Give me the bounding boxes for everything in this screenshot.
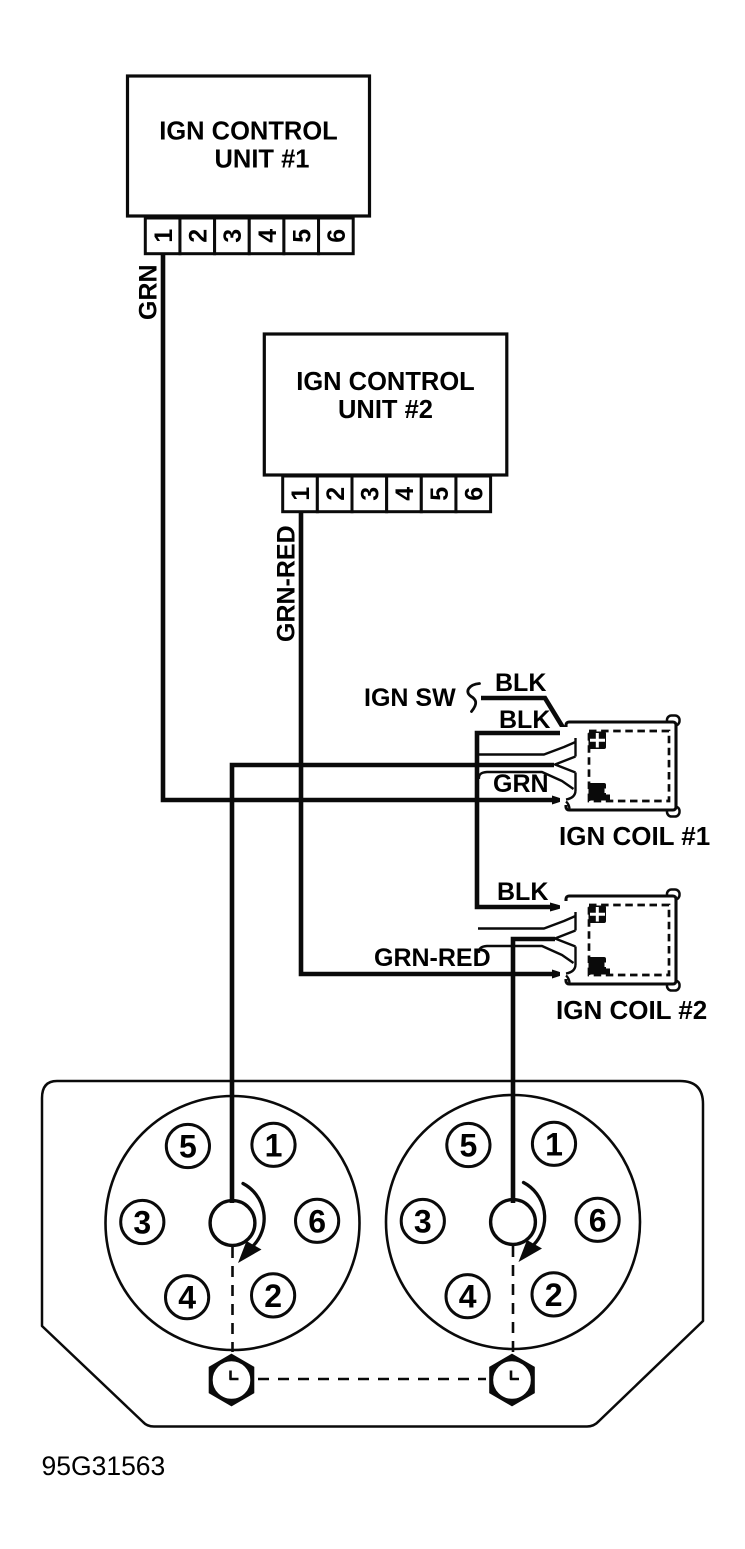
svg-text:6: 6 bbox=[308, 1203, 326, 1239]
right distributor plug tower 5 bbox=[447, 1123, 490, 1166]
IGN COIL #1 terminal cavity outlines bbox=[478, 742, 576, 755]
wire BLK junction branch to coil 2 positive bbox=[477, 733, 563, 907]
svg-text:GRN-RED: GRN-RED bbox=[374, 944, 491, 972]
IGN COIL #2 terminal cavity outlines bbox=[478, 916, 576, 929]
high-tension wire coil 2 to right distributor bbox=[513, 939, 555, 1203]
IGN COIL #1 coil body (dashed) bbox=[589, 731, 669, 801]
U2 connector pin row (pins 1-6) bbox=[283, 476, 318, 512]
svg-text:3: 3 bbox=[357, 487, 385, 501]
right distributor rotor centre bbox=[491, 1200, 536, 1245]
svg-text:BLK: BLK bbox=[495, 669, 546, 697]
svg-text:UNIT #2: UNIT #2 bbox=[338, 396, 433, 424]
dashed line between bolts bbox=[258, 1378, 486, 1381]
svg-text:2: 2 bbox=[322, 487, 350, 501]
svg-text:6: 6 bbox=[589, 1202, 607, 1238]
svg-text:IGN COIL #2: IGN COIL #2 bbox=[556, 995, 707, 1025]
svg-text:IGN CONTROL: IGN CONTROL bbox=[296, 368, 475, 396]
ignition coil connector IGN COIL #1 bbox=[667, 716, 680, 726]
ignition coil connector IGN COIL #2 bbox=[667, 890, 680, 900]
svg-text:3: 3 bbox=[133, 1205, 151, 1241]
svg-text:1: 1 bbox=[265, 1127, 283, 1163]
IGN COIL #2 negative terminal mark bbox=[589, 957, 607, 975]
wire GRN-RED from U2 pin 1 down then right to coil 2 negative bbox=[301, 512, 554, 974]
svg-text:4: 4 bbox=[459, 1279, 477, 1315]
IGN COIL #2 coil body (dashed) bbox=[589, 905, 669, 975]
svg-text:2: 2 bbox=[264, 1278, 282, 1314]
engine block outline bbox=[42, 1081, 703, 1427]
svg-text:2: 2 bbox=[184, 229, 212, 243]
svg-text:BLK: BLK bbox=[499, 706, 550, 734]
IGN control unit U1 box bbox=[128, 76, 370, 216]
svg-text:4: 4 bbox=[178, 1280, 196, 1316]
svg-text:5: 5 bbox=[179, 1129, 197, 1165]
IGN COIL #1 positive terminal mark bbox=[589, 732, 607, 750]
svg-text:1: 1 bbox=[545, 1126, 563, 1162]
right timing mark bolt bbox=[490, 1355, 534, 1405]
svg-text:GRN: GRN bbox=[135, 264, 163, 320]
right distributor cap circle bbox=[386, 1095, 640, 1349]
svg-text:IGN SW: IGN SW bbox=[364, 684, 456, 712]
svg-text:3: 3 bbox=[414, 1204, 432, 1240]
right timing dashed line down bbox=[512, 1246, 515, 1352]
left distributor plug tower 1 bbox=[252, 1123, 295, 1166]
svg-text:95G31563: 95G31563 bbox=[42, 1451, 166, 1481]
left distributor plug tower 3 bbox=[121, 1200, 164, 1243]
svg-text:IGN CONTROL: IGN CONTROL bbox=[159, 118, 338, 146]
right distributor plug tower 4 bbox=[446, 1275, 489, 1318]
svg-text:UNIT #1: UNIT #1 bbox=[215, 146, 310, 174]
svg-text:5: 5 bbox=[426, 487, 454, 501]
BLK wire tip at coil 2 positive bbox=[550, 903, 566, 912]
left distributor plug tower 6 bbox=[296, 1199, 339, 1242]
left distributor plug tower 4 bbox=[166, 1276, 209, 1319]
left timing mark bolt bbox=[210, 1355, 254, 1405]
left distributor cap circle bbox=[106, 1096, 360, 1350]
svg-text:1: 1 bbox=[150, 229, 178, 243]
IGN COIL #1 negative terminal mark bbox=[589, 783, 607, 801]
svg-text:6: 6 bbox=[460, 487, 488, 501]
GRN wire tip at coil 1 bbox=[552, 796, 566, 805]
svg-text:5: 5 bbox=[288, 229, 316, 243]
svg-text:6: 6 bbox=[323, 229, 351, 243]
svg-text:2: 2 bbox=[545, 1277, 563, 1313]
left distributor rotor centre bbox=[210, 1201, 255, 1246]
svg-text:4: 4 bbox=[391, 487, 419, 501]
svg-text:1: 1 bbox=[287, 487, 315, 501]
high-tension wire coil 1 to left distributor bbox=[232, 765, 554, 1203]
IGN COIL #2 positive terminal mark bbox=[589, 906, 607, 924]
right distributor plug tower 3 bbox=[401, 1199, 444, 1242]
svg-text:GRN: GRN bbox=[493, 770, 549, 798]
IGN control unit U2 box bbox=[264, 334, 507, 475]
GRN-RED wire tip at coil 2 bbox=[552, 970, 566, 979]
right rotation arrow bbox=[524, 1183, 545, 1246]
U1 connector pin row (pins 1-6) bbox=[145, 218, 180, 254]
left distributor plug tower 2 bbox=[252, 1274, 295, 1317]
svg-text:3: 3 bbox=[219, 229, 247, 243]
right distributor plug tower 1 bbox=[532, 1122, 575, 1165]
svg-text:GRN-RED: GRN-RED bbox=[273, 525, 301, 642]
svg-text:IGN COIL #1: IGN COIL #1 bbox=[559, 821, 710, 851]
wire GRN from U1 pin 1 down then right to coil 1 negative bbox=[163, 254, 556, 800]
svg-text:5: 5 bbox=[460, 1128, 478, 1164]
svg-text:4: 4 bbox=[254, 229, 282, 243]
svg-text:BLK: BLK bbox=[497, 878, 548, 906]
left timing dashed line down bbox=[231, 1247, 234, 1352]
IGN SW wire-break squiggle bbox=[468, 684, 480, 712]
wire BLK from IGN SW to coil 1 positive (diagonal) bbox=[481, 698, 570, 739]
left rotation arrow bbox=[243, 1184, 264, 1247]
right distributor plug tower 6 bbox=[576, 1198, 619, 1241]
left distributor plug tower 5 bbox=[166, 1124, 209, 1167]
right distributor plug tower 2 bbox=[532, 1273, 575, 1316]
